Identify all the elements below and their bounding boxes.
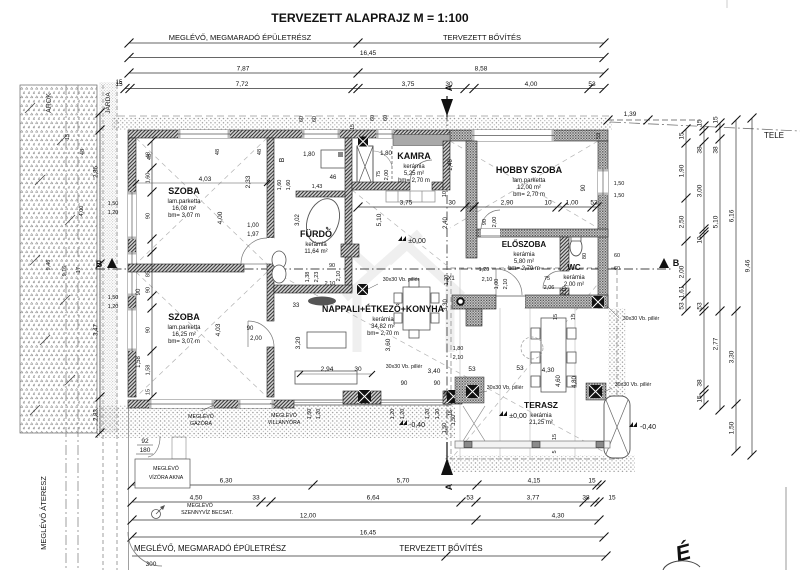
svg-text:53: 53 bbox=[697, 302, 704, 310]
svg-text:-0,40: -0,40 bbox=[640, 424, 656, 431]
divider wall szoba1/szoba2 bbox=[128, 264, 244, 272]
92/180 dim bbox=[136, 436, 186, 459]
washing area dims bbox=[277, 151, 392, 190]
svg-text:30x30 Vb. pillér: 30x30 Vb. pillér bbox=[383, 277, 420, 283]
pillar label 4 bbox=[606, 305, 659, 322]
svg-text:2,10: 2,10 bbox=[482, 277, 493, 283]
terrace dims bbox=[442, 275, 578, 454]
svg-text:3,77: 3,77 bbox=[527, 495, 540, 502]
ditch (arok) triangle-hatched terrain bbox=[20, 85, 97, 433]
svg-text:16,45: 16,45 bbox=[360, 530, 377, 537]
svg-text:1,00: 1,00 bbox=[566, 200, 579, 207]
svg-text:WC: WC bbox=[567, 263, 581, 272]
terrace corner block right bbox=[586, 383, 606, 400]
svg-text:kerámia: kerámia bbox=[563, 275, 585, 281]
bath right wall / chimney wall bbox=[345, 138, 352, 291]
svg-text:bm= 2,70 m: bm= 2,70 m bbox=[513, 192, 545, 198]
svg-text:46: 46 bbox=[330, 175, 337, 181]
bottom wall pier block bbox=[343, 391, 381, 404]
svg-text:2,00: 2,00 bbox=[384, 170, 390, 181]
svg-text:10: 10 bbox=[442, 191, 448, 197]
svg-text:3,47: 3,47 bbox=[94, 324, 100, 336]
svg-text:TERVEZETT BŐVÍTÉS: TERVEZETT BŐVÍTÉS bbox=[399, 544, 482, 553]
eloszoba/wc divider bbox=[560, 237, 569, 271]
svg-text:9,46: 9,46 bbox=[46, 260, 52, 271]
svg-text:MEGLÉVŐ, MEGMARADÓ ÉPÜLETRÉSZ: MEGLÉVŐ, MEGMARADÓ ÉPÜLETRÉSZ bbox=[169, 33, 312, 42]
svg-text:75: 75 bbox=[376, 171, 382, 177]
svg-text:1,50: 1,50 bbox=[729, 421, 736, 434]
svg-text:4,00: 4,00 bbox=[525, 81, 538, 88]
svg-text:6,16: 6,16 bbox=[729, 209, 736, 222]
extension south wall (wc/eloszoba) bbox=[525, 295, 608, 308]
window in top wall (hobby) bbox=[472, 130, 554, 141]
svg-text:38: 38 bbox=[444, 390, 450, 396]
svg-text:90: 90 bbox=[146, 213, 152, 219]
svg-text:4,60: 4,60 bbox=[556, 375, 562, 387]
top label line (epuletresz/bovites) bbox=[129, 42, 604, 44]
svg-text:TELE: TELE bbox=[764, 131, 784, 140]
terrace table bbox=[531, 318, 576, 392]
internal wall x267 lower (szoba2 right) bbox=[267, 264, 274, 321]
svg-text:48: 48 bbox=[147, 154, 153, 160]
svg-text:34,82 m²: 34,82 m² bbox=[371, 324, 395, 330]
svg-text:180: 180 bbox=[140, 447, 151, 454]
kamra partition line bbox=[391, 146, 393, 187]
hall closet shelves bbox=[386, 191, 435, 202]
svg-text:3,60: 3,60 bbox=[385, 338, 392, 351]
bottom dim chain 3 bbox=[132, 519, 599, 521]
wc toilet bbox=[570, 238, 582, 256]
svg-text:NAPPALI+ÉTKEZŐ+KONYHA: NAPPALI+ÉTKEZŐ+KONYHA bbox=[322, 303, 445, 314]
sidewalk (jarda) fine dotted strip bbox=[99, 82, 118, 433]
top wall existing part bbox=[128, 130, 450, 138]
hobby bottom wall bbox=[477, 229, 608, 237]
corner block nappali se bbox=[443, 391, 462, 404]
svg-text:TERVEZETT BŐVÍTÉS: TERVEZETT BŐVÍTÉS bbox=[443, 33, 521, 42]
section marker B left bbox=[96, 258, 117, 269]
svg-text:2,94: 2,94 bbox=[321, 366, 334, 373]
right dim chain 2 bbox=[703, 126, 705, 405]
svg-text:4,50: 4,50 bbox=[190, 495, 203, 502]
telek property dashed line top right bbox=[610, 122, 800, 131]
hobby west wall bbox=[466, 141, 477, 258]
svg-text:30: 30 bbox=[354, 366, 362, 373]
svg-text:1,58: 1,58 bbox=[146, 365, 152, 376]
svg-text:MEGLÉVŐ: MEGLÉVŐ bbox=[187, 502, 213, 509]
svg-text:4,80: 4,80 bbox=[572, 376, 578, 388]
svg-text:17: 17 bbox=[76, 267, 82, 273]
ground texture band below building bbox=[96, 405, 455, 438]
svg-text:3,02: 3,02 bbox=[295, 214, 301, 226]
right dim chain 1 bbox=[685, 129, 687, 311]
svg-text:4,03: 4,03 bbox=[215, 323, 222, 336]
eloszoba dims bbox=[479, 253, 588, 296]
svg-text:1,80: 1,80 bbox=[453, 346, 464, 352]
dining table nappali bbox=[394, 279, 439, 338]
terrace bottom slab band bbox=[455, 441, 610, 448]
svg-text:60: 60 bbox=[614, 266, 620, 272]
section marker A top bbox=[441, 84, 454, 117]
window bottom wall 2 bbox=[238, 400, 274, 408]
svg-text:3,30: 3,30 bbox=[729, 350, 736, 363]
washing machine bbox=[321, 150, 345, 168]
entrance door gap X1 bbox=[496, 295, 525, 308]
svg-text:15: 15 bbox=[448, 410, 454, 416]
svg-text:TERVEZETT ALAPRAJZ M = 1:100: TERVEZETT ALAPRAJZ M = 1:100 bbox=[271, 11, 469, 25]
pillar in nappali near bath bbox=[357, 284, 368, 295]
bottom dim chain 2 bbox=[132, 501, 599, 503]
svg-text:1,00: 1,00 bbox=[494, 279, 500, 290]
svg-text:1,50: 1,50 bbox=[307, 409, 313, 420]
window in top wall (szoba1) bbox=[178, 130, 230, 138]
terrace pillar left bbox=[466, 385, 479, 398]
bottom wall szoba2 bbox=[128, 400, 294, 408]
svg-text:7,72: 7,72 bbox=[236, 81, 249, 88]
svg-text:kerámia: kerámia bbox=[372, 317, 394, 323]
svg-text:15: 15 bbox=[713, 116, 720, 124]
svg-text:5,10: 5,10 bbox=[376, 213, 383, 226]
bottom labels line bbox=[132, 555, 606, 557]
svg-text:1,20: 1,20 bbox=[108, 210, 119, 216]
svg-text:±0,00: ±0,00 bbox=[509, 413, 527, 420]
meglevo villanyora label bbox=[268, 403, 301, 426]
svg-text:53: 53 bbox=[679, 302, 686, 310]
svg-text:2,50: 2,50 bbox=[679, 215, 686, 228]
szoba1 interior dims bbox=[133, 149, 270, 238]
svg-text:lam.parketta: lam.parketta bbox=[167, 325, 201, 331]
left exterior wall bbox=[128, 138, 136, 397]
sofa nappali bbox=[295, 332, 357, 384]
dim chain 7,72 3,75 30 4,00 53 bbox=[125, 88, 604, 90]
svg-text:80: 80 bbox=[582, 253, 588, 259]
svg-text:9,46: 9,46 bbox=[745, 259, 752, 272]
svg-text:2,33: 2,33 bbox=[245, 175, 252, 188]
svg-text:1,60: 1,60 bbox=[286, 180, 292, 191]
svg-text:A: A bbox=[444, 84, 454, 91]
svg-text:90: 90 bbox=[329, 263, 335, 269]
svg-text:bm= 2,70 m: bm= 2,70 m bbox=[367, 331, 399, 337]
section line A-A vertical bbox=[446, 96, 448, 468]
svg-text:15: 15 bbox=[608, 495, 616, 502]
svg-text:2,77: 2,77 bbox=[713, 337, 720, 350]
svg-text:kerámia: kerámia bbox=[403, 164, 425, 170]
right dim chain 3 bbox=[719, 123, 721, 410]
svg-text:1,50: 1,50 bbox=[614, 181, 625, 187]
svg-text:4,00: 4,00 bbox=[217, 211, 224, 224]
svg-text:15: 15 bbox=[571, 314, 577, 320]
svg-text:33: 33 bbox=[252, 495, 260, 502]
svg-text:10: 10 bbox=[697, 236, 704, 244]
svg-text:5,10: 5,10 bbox=[713, 215, 720, 228]
svg-text:53: 53 bbox=[596, 133, 602, 139]
svg-text:16,25 m²: 16,25 m² bbox=[172, 332, 196, 338]
svg-text:15: 15 bbox=[697, 119, 704, 127]
svg-text:3,20: 3,20 bbox=[295, 336, 302, 349]
svg-text:1,80: 1,80 bbox=[303, 152, 315, 158]
svg-text:2,90: 2,90 bbox=[501, 200, 514, 207]
bath bottom wall bbox=[274, 285, 352, 293]
svg-text:2,10: 2,10 bbox=[336, 271, 342, 282]
svg-text:2,86: 2,86 bbox=[94, 166, 100, 178]
svg-text:3,00: 3,00 bbox=[697, 184, 704, 197]
bath wall pier bbox=[341, 244, 359, 257]
svg-text:8,58: 8,58 bbox=[475, 66, 488, 73]
svg-text:SZOBA: SZOBA bbox=[168, 186, 200, 196]
svg-text:15: 15 bbox=[697, 395, 704, 403]
dashed boundary above building bbox=[118, 115, 612, 117]
kamra east wall bbox=[443, 141, 450, 190]
svg-text:MEGLÉVŐ, MEGMARADÓ ÉPÜLETRÉSZ: MEGLÉVŐ, MEGMARADÓ ÉPÜLETRÉSZ bbox=[134, 544, 286, 553]
nappali dims bbox=[293, 276, 524, 397]
terrace pillar right bbox=[589, 385, 602, 398]
svg-text:53: 53 bbox=[468, 366, 476, 373]
svg-text:HOBBY SZOBA: HOBBY SZOBA bbox=[496, 165, 563, 175]
window left wall upper bbox=[128, 192, 136, 239]
terrain diagonal ticks bbox=[25, 103, 75, 415]
terrace dashed outline bbox=[451, 268, 617, 459]
svg-text:90: 90 bbox=[434, 381, 441, 387]
interior left wall dim chain bbox=[151, 141, 153, 397]
svg-text:16,45: 16,45 bbox=[360, 50, 377, 57]
svg-text:2,10: 2,10 bbox=[453, 355, 464, 361]
window in top wall (kamra) bbox=[376, 130, 394, 138]
svg-text:53: 53 bbox=[516, 365, 524, 372]
bath top wall bbox=[296, 191, 352, 197]
ground texture band below terrace bbox=[445, 455, 635, 472]
meglevo gazora label bbox=[188, 405, 214, 427]
svg-text:30x30 Vb. pillér: 30x30 Vb. pillér bbox=[615, 382, 652, 388]
svg-text:15: 15 bbox=[553, 314, 559, 320]
right dim chain 4 bbox=[735, 120, 737, 451]
svg-text:2,10: 2,10 bbox=[562, 286, 568, 296]
svg-text:15: 15 bbox=[679, 132, 686, 140]
dim 1,39 bbox=[604, 111, 701, 125]
svg-text:60: 60 bbox=[383, 115, 389, 121]
svg-text:VÍZÓRA AKNA: VÍZÓRA AKNA bbox=[149, 474, 184, 481]
svg-text:TERASZ: TERASZ bbox=[524, 400, 558, 410]
svg-text:30x30 Vb. pillér: 30x30 Vb. pillér bbox=[386, 364, 423, 370]
svg-text:bm= 2,70 m: bm= 2,70 m bbox=[398, 178, 430, 184]
window in top wall (bath) bbox=[302, 130, 340, 138]
svg-text:1,50: 1,50 bbox=[108, 295, 119, 301]
svg-text:1,60: 1,60 bbox=[277, 180, 283, 191]
svg-text:1,50: 1,50 bbox=[442, 423, 448, 434]
watermark house logo bbox=[345, 233, 462, 352]
bottom window sill dims bbox=[307, 390, 457, 425]
entrance door arc X1 bbox=[495, 269, 497, 295]
svg-text:90: 90 bbox=[136, 288, 142, 295]
bottom-left door arc bbox=[128, 532, 162, 566]
svg-text:2,23: 2,23 bbox=[314, 272, 320, 283]
svg-text:5,70: 5,70 bbox=[397, 478, 410, 485]
decor ellipse nappali bbox=[308, 297, 336, 306]
svg-text:48: 48 bbox=[257, 149, 263, 155]
terrace circle element bbox=[521, 337, 543, 359]
svg-text:4,15: 4,15 bbox=[528, 478, 541, 485]
svg-text:4,00: 4,00 bbox=[79, 206, 85, 217]
door arc szoba2-nappali bbox=[248, 321, 274, 347]
svg-text:1,58: 1,58 bbox=[136, 356, 142, 368]
svg-text:ÁROK: ÁROK bbox=[44, 93, 53, 113]
page edge right bbox=[785, 487, 787, 570]
svg-text:1,90: 1,90 bbox=[679, 164, 686, 177]
washbasin bbox=[272, 251, 286, 269]
svg-text:30x30 Vb. pillér: 30x30 Vb. pillér bbox=[623, 316, 660, 322]
bathtub bbox=[301, 194, 346, 248]
svg-text:1,20: 1,20 bbox=[390, 409, 396, 420]
svg-text:5,25 m²: 5,25 m² bbox=[404, 171, 424, 177]
kitchen wall block L-shape bbox=[452, 295, 496, 309]
pillar label 3 bbox=[478, 385, 523, 393]
window right wall bbox=[598, 169, 608, 195]
svg-text:3,40: 3,40 bbox=[428, 368, 441, 375]
svg-text:1,20: 1,20 bbox=[444, 275, 450, 286]
kitchen sink circle bbox=[456, 297, 464, 305]
svg-text:5: 5 bbox=[552, 450, 558, 453]
pillar label 1 bbox=[366, 277, 419, 290]
svg-text:KAMRA: KAMRA bbox=[397, 151, 431, 161]
svg-text:2,10: 2,10 bbox=[503, 279, 509, 290]
window bottom wall 1 bbox=[149, 400, 214, 408]
wc door arc bbox=[543, 271, 560, 288]
svg-text:90: 90 bbox=[247, 326, 254, 332]
svg-text:15: 15 bbox=[116, 80, 123, 86]
svg-text:2,83: 2,83 bbox=[94, 409, 100, 421]
svg-text:1,20: 1,20 bbox=[425, 409, 431, 420]
svg-text:2,10: 2,10 bbox=[325, 281, 336, 287]
svg-text:MEGLÉVŐ: MEGLÉVŐ bbox=[153, 465, 179, 472]
svg-text:1,97: 1,97 bbox=[247, 232, 259, 238]
svg-text:16,08 m²: 16,08 m² bbox=[172, 206, 196, 212]
hobby door arc bbox=[481, 210, 500, 229]
pillar label 5 bbox=[604, 382, 651, 392]
svg-text:10: 10 bbox=[544, 200, 552, 207]
level marker -0,40 right bbox=[629, 422, 656, 431]
kamra bottom wall bbox=[352, 182, 410, 190]
svg-text:lam.parketta: lam.parketta bbox=[167, 199, 201, 205]
svg-text:±0,00: ±0,00 bbox=[408, 238, 426, 245]
szoba2 interior dims bbox=[136, 288, 262, 368]
hobby dims bbox=[470, 181, 625, 227]
svg-text:90: 90 bbox=[581, 184, 587, 191]
svg-text:60: 60 bbox=[299, 116, 305, 122]
svg-text:JÁRDA: JÁRDA bbox=[103, 92, 112, 114]
window left wall lower bbox=[128, 308, 136, 351]
terrace bottom posts bbox=[464, 442, 604, 448]
terrain dim labels bbox=[46, 134, 86, 276]
north arrow E bbox=[663, 538, 700, 570]
svg-text:85: 85 bbox=[146, 271, 152, 277]
top wall small dims 60 bbox=[299, 115, 602, 139]
svg-text:SZOBA: SZOBA bbox=[168, 312, 200, 322]
pillar bottom glazing 2 bbox=[447, 390, 460, 403]
svg-text:-0,40: -0,40 bbox=[409, 422, 425, 429]
property/reference dashed vertical lines left bbox=[66, 85, 129, 570]
svg-text:3,30: 3,30 bbox=[443, 299, 449, 311]
svg-text:2,40: 2,40 bbox=[443, 217, 449, 229]
svg-text:2,06: 2,06 bbox=[544, 285, 555, 291]
level marker +-0,00 terrace bbox=[499, 411, 527, 420]
svg-text:1,80: 1,80 bbox=[380, 151, 392, 157]
right exterior wall extension bbox=[598, 141, 608, 308]
svg-text:kerámia: kerámia bbox=[305, 242, 327, 248]
svg-text:1,50: 1,50 bbox=[108, 201, 119, 207]
svg-text:6,30: 6,30 bbox=[220, 478, 233, 485]
hobby door gap bbox=[481, 229, 500, 237]
section line B-B horizontal bbox=[96, 268, 672, 270]
kamra partition door arc bbox=[373, 151, 392, 166]
svg-text:4,30: 4,30 bbox=[542, 367, 555, 374]
svg-text:2,00: 2,00 bbox=[679, 265, 686, 278]
room diagonal cross dashed lines bbox=[136, 138, 617, 459]
svg-text:15: 15 bbox=[588, 478, 596, 485]
right wall small dims bbox=[614, 253, 620, 272]
level marker +-0,00 hall bbox=[398, 236, 426, 245]
svg-text:4,30: 4,30 bbox=[552, 513, 565, 520]
svg-text:A: A bbox=[444, 483, 454, 490]
svg-text:30: 30 bbox=[448, 200, 456, 207]
svg-text:38: 38 bbox=[697, 379, 704, 387]
meglevo vizora akna box bbox=[135, 459, 190, 488]
hall dims bbox=[354, 159, 479, 361]
svg-text:1,20: 1,20 bbox=[400, 409, 406, 420]
svg-text:38: 38 bbox=[713, 146, 720, 154]
svg-text:48: 48 bbox=[80, 149, 86, 155]
svg-text:38: 38 bbox=[582, 495, 590, 502]
svg-text:12,00: 12,00 bbox=[300, 513, 317, 520]
svg-text:bm= 2,70 m: bm= 2,70 m bbox=[508, 266, 540, 272]
svg-text:60: 60 bbox=[370, 115, 376, 121]
svg-text:1,50: 1,50 bbox=[614, 193, 625, 199]
terrace rounded bump-out right bbox=[604, 396, 630, 458]
svg-text:53: 53 bbox=[466, 495, 474, 502]
section marker A bottom bbox=[441, 442, 454, 490]
svg-text:30x30 Vb. pillér: 30x30 Vb. pillér bbox=[487, 385, 524, 391]
internal wall x267 upper (szoba1 right) bbox=[267, 138, 274, 238]
svg-text:kerámia: kerámia bbox=[530, 413, 552, 419]
svg-text:7,87: 7,87 bbox=[237, 66, 250, 73]
ground texture band above building bbox=[112, 117, 612, 130]
svg-text:kerámia: kerámia bbox=[513, 252, 535, 258]
right dim chain 5 bbox=[751, 118, 753, 455]
window left wall middle bbox=[128, 252, 136, 296]
svg-text:ELŐSZOBA: ELŐSZOBA bbox=[502, 240, 547, 249]
svg-text:48: 48 bbox=[215, 149, 221, 155]
dim chain 16,45 top bbox=[129, 57, 604, 59]
terrace corner block left bbox=[455, 377, 484, 403]
svg-text:1,60: 1,60 bbox=[146, 173, 152, 184]
pillar label 2 bbox=[386, 364, 423, 370]
chimney top block bbox=[358, 137, 368, 147]
svg-text:5,80 m²: 5,80 m² bbox=[514, 259, 534, 265]
svg-text:3,75: 3,75 bbox=[402, 81, 415, 88]
gray wall band above kamra bbox=[393, 135, 450, 146]
terrace left X brace bbox=[463, 406, 485, 441]
svg-text:90: 90 bbox=[401, 381, 408, 387]
svg-text:1,43: 1,43 bbox=[312, 184, 323, 190]
svg-text:6,64: 6,64 bbox=[367, 495, 380, 502]
svg-text:1,39: 1,39 bbox=[624, 111, 637, 118]
svg-text:15: 15 bbox=[350, 124, 356, 130]
svg-text:33: 33 bbox=[293, 303, 300, 309]
chimney shaft bbox=[357, 146, 373, 187]
svg-text:FÜRDŐ: FÜRDŐ bbox=[300, 228, 332, 239]
svg-text:1,61: 1,61 bbox=[679, 285, 686, 298]
svg-text:GÁZÓRA: GÁZÓRA bbox=[190, 420, 212, 427]
bottom glazing nappali bbox=[294, 400, 450, 405]
svg-text:2,00: 2,00 bbox=[250, 336, 262, 342]
svg-text:15: 15 bbox=[552, 434, 558, 440]
